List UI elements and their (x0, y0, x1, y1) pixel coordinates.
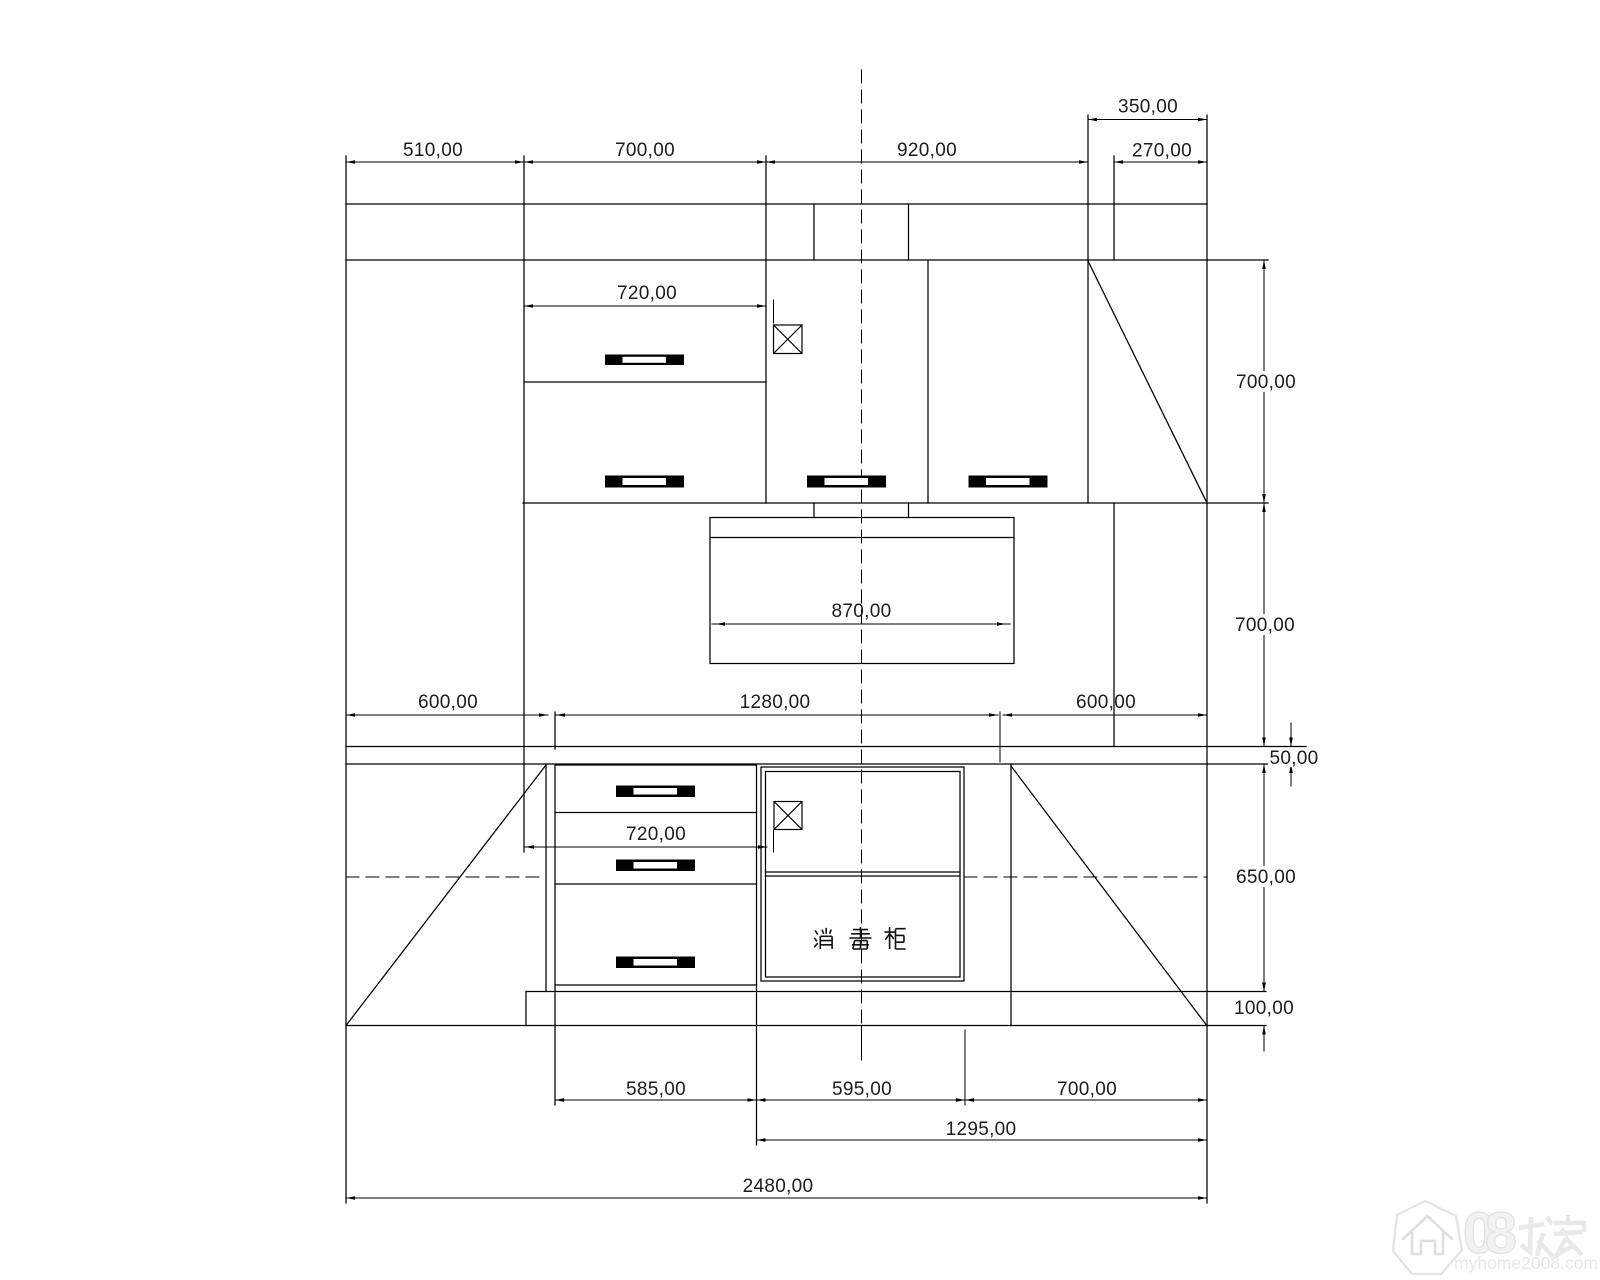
dashed worktop level line left (346, 876, 546, 878)
base right diagonal (open corner) (1011, 766, 1206, 1025)
base left diagonal (open corner) (346, 765, 546, 1026)
dim line 650,00 vertical (1263, 764, 1265, 992)
label 100,00 (1234, 997, 1295, 1018)
label 650,00 (1236, 866, 1297, 887)
svg-text:1295,00: 1295,00 (946, 1119, 1017, 1140)
text 毒 (disinfect cabinet char 2) (850, 927, 872, 949)
svg-text:700,00: 700,00 (1057, 1079, 1117, 1100)
crossed box symbol lower (socket point) (774, 802, 802, 830)
dim line 600,00 left (346, 714, 548, 716)
dim line 600,00 right (1003, 714, 1207, 716)
extension line for 720 upper at X box (773, 300, 775, 323)
extension line at 1000 (999, 712, 1001, 762)
svg-text:870,00: 870,00 (832, 601, 892, 622)
dim line 2480,00 (346, 1197, 1207, 1199)
arrows dim 600 left (346, 713, 355, 717)
text 柜 (disinfect cabinet char 3) (885, 927, 906, 949)
extension line at 965 (964, 1030, 966, 1105)
dim line 700,00 bottom (965, 1099, 1207, 1101)
right wall edge (1206, 115, 1208, 1203)
arrows dim 720 lower (525, 845, 534, 849)
handle upper door 3 (middle door) (807, 476, 886, 488)
drawer divider 1 (555, 812, 757, 814)
handle upper door 1 (left cabinet top door) (605, 355, 684, 366)
svg-text:920,00: 920,00 (897, 140, 957, 161)
drawer divider 2 (555, 883, 757, 885)
dim line 100,00 lower tail (1263, 1026, 1265, 1052)
upper cabinet door divider 2 (927, 260, 929, 503)
svg-text:720,00: 720,00 (626, 824, 686, 845)
range hood body (710, 518, 1014, 664)
watermark hanzi 我 (1519, 1217, 1553, 1257)
arrows dim 595 (757, 1098, 766, 1102)
wall left edge / tall cabinet side (345, 156, 347, 1203)
upper left cabinet door divider horizontal (524, 381, 766, 383)
arrows dim 270 (1114, 160, 1123, 164)
dim line 920,00 (766, 161, 1088, 163)
arrows dim 650 (1262, 764, 1266, 773)
drawer unit right edge extension (756, 985, 758, 1145)
svg-text:650,00: 650,00 (1236, 867, 1296, 888)
crossed box symbol upper (light point) (774, 325, 803, 354)
centre line tail at base (861, 1026, 863, 1060)
handle drawer 2 (616, 860, 695, 872)
svg-text:600,00: 600,00 (1076, 692, 1136, 713)
svg-text:50,00: 50,00 (1269, 748, 1318, 769)
svg-text:2480,00: 2480,00 (743, 1176, 814, 1197)
svg-text:720,00: 720,00 (617, 283, 677, 304)
svg-text:600,00: 600,00 (418, 692, 478, 713)
tall cabinet right side (523, 156, 525, 852)
arrows dim 720 upper (524, 304, 533, 308)
dim line 720,00 upper (door top edge) (524, 305, 766, 307)
arrows dim 50 outside (1289, 738, 1293, 747)
svg-text:270,00: 270,00 (1132, 141, 1192, 162)
svg-text:myhome2008.com: myhome2008.com (1454, 1253, 1598, 1273)
dim line 350,00 (1088, 119, 1207, 121)
soffit divider a (813, 204, 815, 260)
svg-text:595,00: 595,00 (832, 1079, 892, 1100)
base left corner vertical (545, 764, 547, 992)
arrows dim 1295 (757, 1138, 766, 1142)
svg-text:100,00: 100,00 (1234, 998, 1294, 1019)
hood chimney left (813, 503, 815, 518)
arrows dim 350 (1088, 118, 1097, 122)
watermark house icon (1403, 1216, 1452, 1254)
drawer unit box (555, 765, 757, 985)
dim line 270,00 (1114, 161, 1207, 163)
text 消 (disinfect cabinet char 1) (814, 928, 832, 949)
dim line 700,00 top (524, 161, 766, 163)
dim line 595,00 (757, 1099, 966, 1101)
arrows dim 585 (555, 1098, 564, 1102)
sterilizer cabinet inner box (766, 772, 961, 978)
arrows dim 1280 (556, 713, 565, 717)
centre axis dashed line (861, 70, 863, 1060)
arrows dim 510 (346, 160, 355, 164)
svg-text:700,00: 700,00 (1235, 615, 1295, 636)
toe kick top line (526, 991, 1266, 993)
arrows dim 600 right (1003, 713, 1012, 717)
countertop bottom line (346, 763, 1306, 765)
svg-text:350,00: 350,00 (1118, 97, 1178, 118)
soffit band top (346, 203, 1207, 205)
dim line 700,00 vertical lower (1263, 503, 1265, 747)
dim line 720,00 lower (525, 846, 767, 848)
dim line 870,00 (712, 623, 1010, 625)
svg-text:1280,00: 1280,00 (740, 692, 811, 713)
soffit divider b (908, 204, 910, 260)
handle drawer 1 (616, 786, 695, 798)
dim line 1280,00 (556, 714, 998, 716)
dim line 100,00 upper tail (1263, 955, 1265, 992)
sterilizer divider lower line (766, 875, 961, 877)
upper cabinet door divider 3 (1087, 115, 1089, 503)
sterilizer divider upper line (766, 871, 961, 873)
toe kick left step vertical (525, 992, 527, 1026)
dim line 700,00 vertical upper (1263, 260, 1265, 503)
vertical line at wall section (1113, 156, 1115, 260)
dim line 510,00 (346, 161, 524, 163)
hood chimney right (908, 503, 910, 518)
svg-text:700,00: 700,00 (1236, 372, 1296, 393)
watermark badge hexagon (1393, 1201, 1462, 1274)
countertop top line (346, 746, 1306, 748)
arrows dim 700 top (524, 160, 533, 164)
upper cabinets bottom line (523, 502, 1268, 504)
arrows dim 700 vertical upper (1262, 260, 1266, 269)
extension line for 720 lower at X box (773, 830, 775, 852)
arrows dim 870 (716, 622, 725, 626)
dim line 585,00 (555, 1099, 757, 1101)
label 50,00 (1268, 748, 1320, 767)
arrows dim 920 (766, 160, 775, 164)
base right cabinet left edge (1010, 764, 1012, 1026)
handle upper door 4 (right door) (969, 476, 1048, 488)
sterilizer cabinet outer box (761, 767, 964, 981)
handle drawer 3 (616, 957, 695, 969)
arrows dim 700 bottom (965, 1098, 974, 1102)
base bottom line (346, 1025, 1266, 1027)
dashed worktop level line right (964, 876, 1207, 878)
dim line 50,00 vertical upper tail (1290, 723, 1292, 747)
arrows dim 700 vertical lower (1262, 503, 1266, 512)
range hood top panel line (710, 537, 1014, 539)
upper cabinet door divider 1 (765, 156, 767, 503)
label 700,00 vertical lower (1235, 614, 1296, 635)
soffit band bottom (346, 259, 1268, 261)
svg-text:510,00: 510,00 (403, 140, 463, 161)
svg-text:700,00: 700,00 (615, 140, 675, 161)
drawer unit left edge extension (554, 712, 556, 749)
dim line 50,00 vertical lower tail (1290, 764, 1292, 786)
watermark hanzi 家 (1554, 1215, 1584, 1257)
handle upper door 2 (left cabinet bottom door) (605, 476, 684, 488)
label 700,00 vertical upper (1236, 371, 1297, 392)
arrows dim 100 outside (1262, 983, 1266, 992)
upper corner cabinet diagonal (1088, 261, 1206, 501)
arrows dim 2480 (346, 1196, 355, 1200)
wall line below corner cabinet (1113, 503, 1115, 747)
dim line 1295,00 (757, 1139, 1208, 1141)
svg-text:585,00: 585,00 (626, 1079, 686, 1100)
